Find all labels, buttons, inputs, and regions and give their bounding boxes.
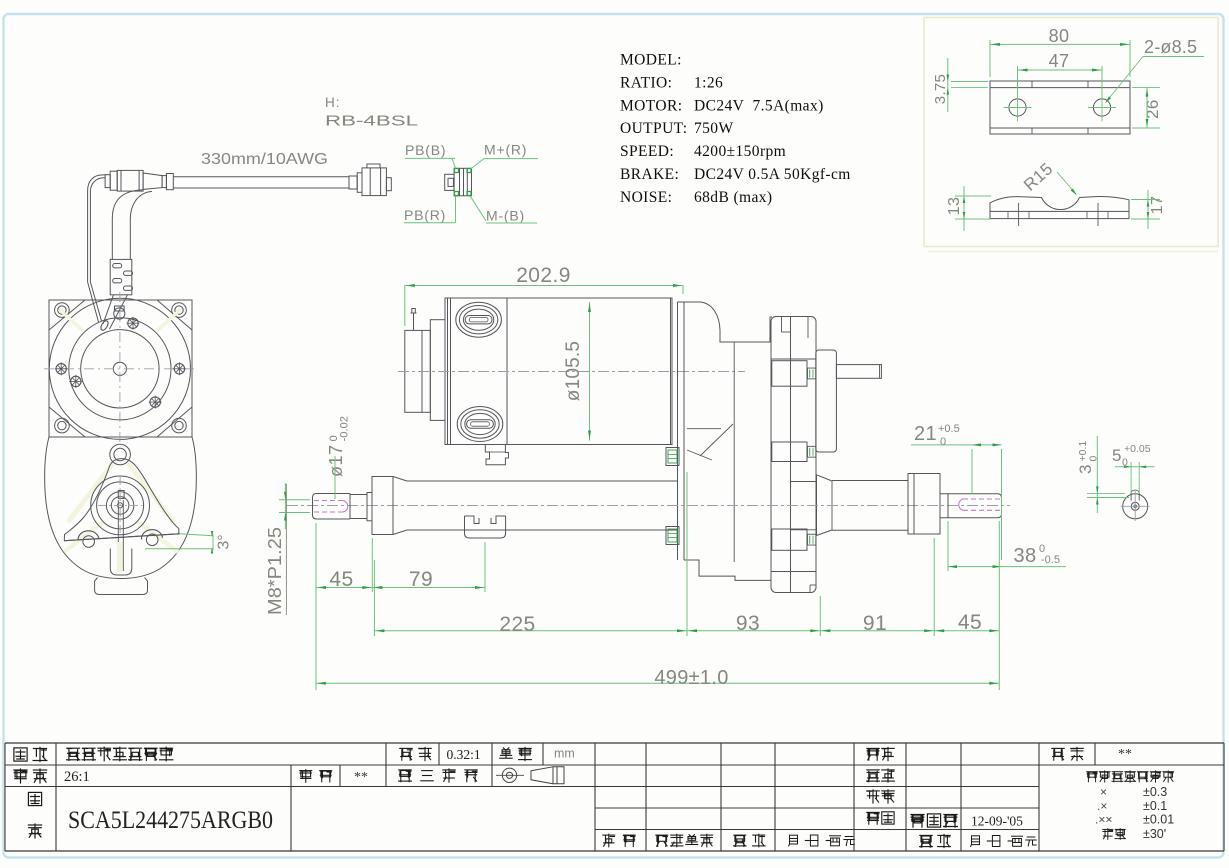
svg-text:MOTOR:: MOTOR: xyxy=(620,97,682,114)
actuator tube xyxy=(407,480,678,482)
svg-text:3: 3 xyxy=(1076,464,1095,474)
hub circles xyxy=(91,476,150,535)
svg-text:26: 26 xyxy=(1143,99,1162,119)
right thread end xyxy=(940,494,1002,518)
svg-text:OUTPUT:: OUTPUT: xyxy=(620,120,687,137)
collar xyxy=(908,474,914,535)
brush cap upper xyxy=(456,302,502,337)
svg-text:5: 5 xyxy=(1112,446,1121,465)
svg-text:750W: 750W xyxy=(694,120,733,137)
svg-text:4200±150rpm: 4200±150rpm xyxy=(694,143,786,160)
svg-text:93: 93 xyxy=(736,612,760,635)
svg-text:499±1.0: 499±1.0 xyxy=(654,667,728,689)
bracket bolts xyxy=(78,531,99,541)
wire right connector xyxy=(349,176,357,189)
svg-text:80: 80 xyxy=(1049,26,1070,46)
svg-text:SPEED:: SPEED: xyxy=(620,143,674,160)
gear housing outline xyxy=(45,437,197,579)
svg-text:17: 17 xyxy=(1149,196,1166,215)
dia17 dimension xyxy=(326,416,351,477)
svg-text:SCA5L244275ARGB0: SCA5L244275ARGB0 xyxy=(68,807,273,834)
tube end cap xyxy=(372,477,393,535)
svg-text:NOISE:: NOISE: xyxy=(620,189,672,206)
svg-text:M+(R): M+(R) xyxy=(484,142,527,158)
motor mount tab xyxy=(485,445,508,465)
hub centerlines xyxy=(98,504,143,506)
svg-text:.××: .×× xyxy=(1095,813,1112,827)
axle centerline xyxy=(287,505,1010,507)
svg-text:68dB (max): 68dB (max) xyxy=(694,189,772,206)
bracket holes xyxy=(1009,99,1026,116)
right axle cylinder xyxy=(832,480,908,482)
3 deg dimension xyxy=(180,534,213,536)
svg-text:±0.1: ±0.1 xyxy=(1143,799,1167,813)
svg-text:0.32:1: 0.32:1 xyxy=(447,747,481,762)
connector face detail xyxy=(445,174,454,190)
svg-text:**: ** xyxy=(354,770,368,785)
motor centerline xyxy=(398,371,745,373)
shaft cross-section xyxy=(1123,494,1148,519)
svg-text:3.75: 3.75 xyxy=(932,74,949,104)
svg-text:H:: H: xyxy=(325,95,341,110)
face screws xyxy=(56,364,66,374)
case clips xyxy=(666,448,679,466)
svg-text:38: 38 xyxy=(1013,545,1036,567)
svg-text:79: 79 xyxy=(409,568,433,591)
svg-text:+0.05: +0.05 xyxy=(1124,443,1151,455)
svg-text:**: ** xyxy=(1118,747,1132,762)
svg-text:ø105.5: ø105.5 xyxy=(563,341,584,401)
45 79 dimensions xyxy=(315,523,317,690)
bracket base slant edge xyxy=(64,534,180,541)
detail box border xyxy=(924,18,1218,247)
svg-text:-0.02: -0.02 xyxy=(339,416,351,442)
svg-text:M-(B): M-(B) xyxy=(486,208,525,224)
flange bolt lugs xyxy=(772,361,807,387)
title block labels xyxy=(14,748,27,761)
svg-text:13: 13 xyxy=(946,197,963,216)
gear case body xyxy=(678,302,773,342)
bottom slot shaft xyxy=(110,549,132,576)
svg-text:±30': ±30' xyxy=(1143,827,1166,841)
svg-text:RATIO:: RATIO: xyxy=(620,74,672,91)
svg-text:×: × xyxy=(1100,785,1107,799)
face centerlines xyxy=(44,368,196,370)
svg-text:ø17: ø17 xyxy=(326,444,346,477)
svg-text:BRAKE:: BRAKE: xyxy=(620,166,679,183)
left shoulder & washer xyxy=(350,495,367,519)
svg-text:-0.5: -0.5 xyxy=(1041,554,1060,566)
svg-text:45: 45 xyxy=(958,611,982,634)
svg-text:225: 225 xyxy=(499,613,535,636)
front view: mounting flange square xyxy=(49,300,192,437)
svg-text:mm: mm xyxy=(554,747,575,761)
svg-text:MODEL:: MODEL: xyxy=(620,52,682,69)
svg-text:DC24V 0.5A 50Kgf-cm: DC24V 0.5A 50Kgf-cm xyxy=(694,166,851,183)
svg-text:.×: .× xyxy=(1097,799,1107,813)
svg-text:3°: 3° xyxy=(216,534,233,549)
bottom bell xyxy=(95,578,148,595)
svg-text:RB-4BSL: RB-4BSL xyxy=(325,113,418,130)
svg-text:330mm/10AWG: 330mm/10AWG xyxy=(201,151,328,168)
top bolt below flange xyxy=(110,444,131,465)
triangular bracket xyxy=(64,459,179,541)
dim 3 xyxy=(1076,441,1100,474)
top terminal xyxy=(114,308,125,319)
svg-text:PB(R): PB(R) xyxy=(404,207,446,223)
saddle side view xyxy=(990,196,1129,211)
left thread end xyxy=(313,494,351,520)
svg-text:26:1: 26:1 xyxy=(64,769,90,785)
dim 47 xyxy=(1017,66,1019,96)
svg-text:45: 45 xyxy=(329,568,353,591)
225 93 91 45 dimensions xyxy=(373,560,375,636)
202.9 dimension xyxy=(404,285,406,326)
svg-text:47: 47 xyxy=(1049,51,1070,71)
projection symbol xyxy=(502,768,516,782)
svg-text:91: 91 xyxy=(863,612,887,635)
flange cover plate xyxy=(771,317,816,593)
endbell ring xyxy=(430,320,445,421)
svg-text:PB(B): PB(B) xyxy=(405,142,446,158)
svg-text:12-09-'05: 12-09-'05 xyxy=(971,814,1023,829)
svg-text:2-ø8.5: 2-ø8.5 xyxy=(1144,37,1197,57)
svg-text:+0.5: +0.5 xyxy=(938,423,960,435)
svg-text:1:26: 1:26 xyxy=(694,74,723,91)
yellow rays xyxy=(68,463,113,522)
motor face circles xyxy=(49,298,190,439)
svg-text:±0.3: ±0.3 xyxy=(1143,785,1167,799)
svg-text:M8*P1.25: M8*P1.25 xyxy=(265,527,285,615)
svg-text:202.9: 202.9 xyxy=(516,264,571,287)
svg-text:21: 21 xyxy=(914,423,937,445)
side view motor endcap xyxy=(405,330,431,412)
output boss xyxy=(816,475,818,536)
case section mark xyxy=(687,428,721,430)
input shaft & bearing plate xyxy=(816,350,837,452)
499 dimension xyxy=(316,682,1000,684)
svg-text:±0.01: ±0.01 xyxy=(1143,813,1174,827)
thin brake wire xyxy=(88,175,106,191)
corner holes xyxy=(55,303,70,318)
wire into motor xyxy=(103,295,114,324)
motor body xyxy=(445,298,672,445)
dia 105.5 dimension xyxy=(589,302,591,441)
bracket top view xyxy=(990,81,1130,134)
wire bend down to sleeve xyxy=(112,190,143,219)
strain relief sleeve xyxy=(110,259,132,294)
dim 80 xyxy=(989,40,991,77)
svg-text:DC24V 7.5A(max): DC24V 7.5A(max) xyxy=(694,97,824,114)
title block grid xyxy=(5,742,1224,744)
inline connector left end xyxy=(105,175,110,188)
tube clamp xyxy=(465,516,506,538)
svg-text:0: 0 xyxy=(940,436,946,448)
wire horizontal run xyxy=(173,176,349,178)
